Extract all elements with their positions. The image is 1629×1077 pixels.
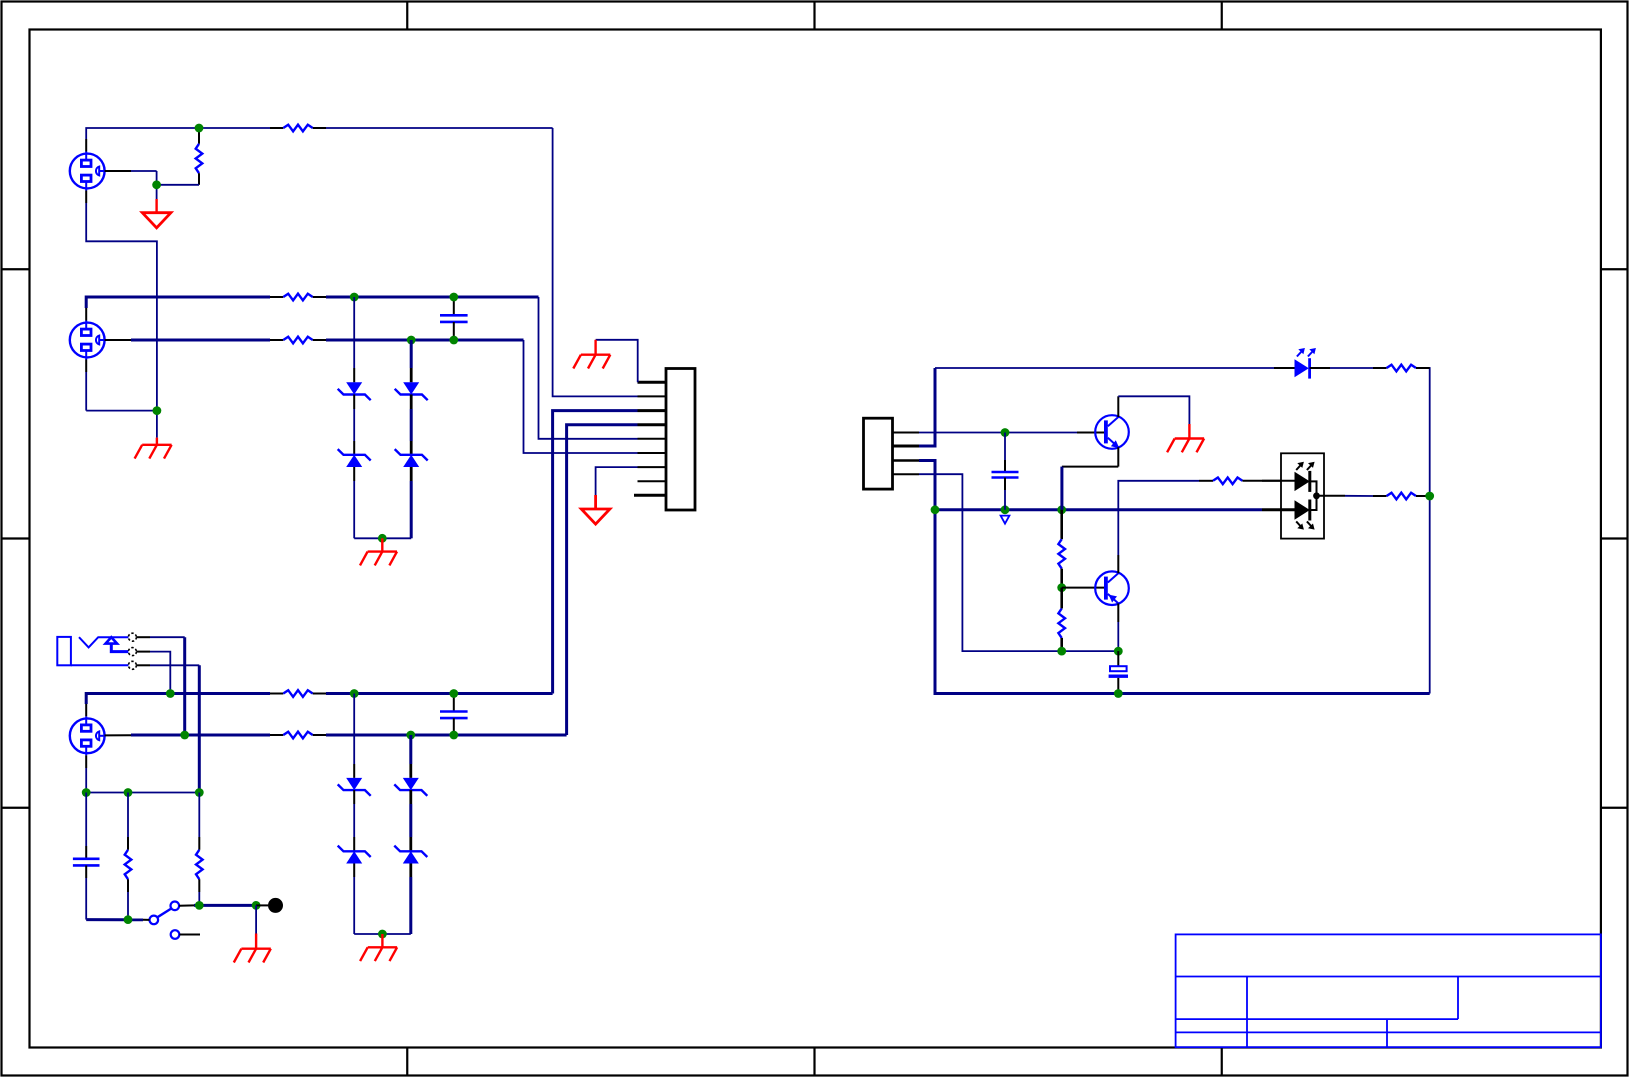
J5 pin leads [86, 704, 131, 768]
junction dot gnd tap [252, 901, 261, 910]
junction dots rail nodes [350, 293, 458, 345]
wire rail y297 [86, 297, 538, 308]
junction dot bottom [124, 915, 133, 924]
wire pin3 down [553, 411, 638, 694]
wire pin1 to chassis [596, 340, 638, 383]
transistor Q2 [1095, 571, 1129, 605]
junction dot switch node [195, 901, 204, 910]
wire switch to flag [194, 904, 256, 907]
jack contact circles [128, 633, 136, 669]
ground GND6 chassis [360, 934, 397, 961]
connector J4 header [666, 369, 695, 511]
switch SW1 [150, 902, 180, 939]
wire to header pin5 [539, 297, 638, 439]
resistor R9 [125, 793, 132, 920]
junction dot right vertical [1425, 492, 1434, 501]
pin 9 [634, 494, 666, 497]
J6 pin 4 [893, 473, 920, 475]
ground GND1 arrow [142, 199, 171, 228]
wire opto out [1345, 495, 1373, 497]
J2 pin leads [86, 308, 131, 372]
resistor R7 [270, 690, 326, 697]
ground GND8 chassis [1167, 424, 1204, 452]
junction dot J2 gnd [153, 406, 162, 415]
pin 5 [638, 438, 667, 440]
wire rail y693.5 [86, 694, 552, 705]
wire Q2 collector to opto [1118, 481, 1199, 573]
connector J3 jack [57, 637, 128, 665]
wire jack ring [150, 652, 170, 694]
optocoupler U1 box [1281, 453, 1324, 538]
zener D2 [338, 395, 371, 539]
transistor Q1 [1095, 415, 1129, 449]
wire J1 pin1 to node [86, 139, 131, 203]
wire J1 bottom to J2 bottom [86, 203, 157, 411]
opto LED B [1262, 500, 1315, 530]
resistor R8 [270, 732, 326, 739]
J6 pin 2 [893, 445, 920, 448]
switch leads [143, 905, 200, 934]
connector J5 (DIN) [70, 716, 105, 755]
resistor R10 [196, 793, 203, 906]
junction dot zener gnd block3 [378, 930, 387, 939]
junction dots right rail [931, 428, 1067, 514]
zener D4 [395, 395, 428, 539]
opto LED A [1262, 462, 1315, 492]
wire pin2 loop top [919, 368, 1430, 694]
junction dot divider [1057, 583, 1066, 592]
capacitor C6 [992, 433, 1019, 510]
wire pin3 loop bottom [919, 461, 1430, 694]
junction dots block3 rails [166, 689, 458, 739]
junction dot node B [152, 180, 161, 189]
capacitor C1 [440, 297, 468, 340]
pin 7 [638, 466, 667, 468]
resistor R14 [1199, 478, 1295, 485]
wire tap to gnd [255, 905, 257, 933]
resistor R12 [1058, 510, 1065, 588]
wire top rail y128 [86, 128, 637, 396]
ground mini triangle [1001, 516, 1010, 524]
zener D1 [338, 297, 371, 400]
capacitor C4 [440, 694, 468, 736]
wire pin4 to divider foot [919, 474, 1118, 651]
zener D9 [394, 790, 427, 934]
wire Q2 base [1062, 587, 1104, 589]
wire Q1 emitter to rail [1062, 447, 1118, 510]
wire zener bottoms [354, 537, 411, 539]
pin 8 [638, 480, 667, 482]
TITLE-BLOCK [1176, 934, 1601, 1047]
wire jack tip [150, 637, 185, 735]
pin 1 [638, 381, 667, 384]
ground GND4 chassis [573, 340, 610, 369]
opto common output [1310, 481, 1345, 510]
wire Q1 collector to chassis [1118, 396, 1189, 424]
junction dots wire3 [82, 788, 204, 797]
pin 2 [638, 395, 667, 397]
connector J6 [864, 418, 893, 489]
junction dot zener gnd [378, 534, 387, 543]
wire to header pin6 [524, 340, 638, 453]
resistor R4 [270, 337, 326, 344]
ground GND3 chassis [135, 438, 172, 459]
pin 6 [638, 452, 667, 454]
wire rail y509.8 [935, 508, 1262, 511]
junction dots emitter row [1057, 647, 1122, 656]
capacitor C5 [73, 793, 100, 920]
junction dot bottom wire [1114, 689, 1123, 698]
resistor R2 [196, 128, 203, 185]
wire J5 bottom to node row [86, 768, 199, 793]
LED D10 [1274, 348, 1330, 379]
capacitor C7 polarized [1109, 651, 1128, 693]
wire R2 to node A [131, 171, 199, 199]
wire Q2 emitter [1117, 603, 1119, 651]
resistor R3 [270, 294, 326, 301]
junction dot node A [195, 124, 204, 133]
wire rail y340 [131, 339, 524, 342]
jack pin leads [136, 637, 150, 665]
pin 3 [638, 409, 667, 412]
wire pin4 down [567, 425, 638, 735]
ground GND7 chassis [234, 934, 271, 963]
wire bottom left [86, 918, 143, 921]
J6 pin 3 [893, 459, 920, 462]
connector J1 (DIN) [70, 152, 105, 191]
wire J2 bottom node [86, 372, 157, 438]
wire pin7 to gnd [596, 467, 638, 495]
zener D7 [338, 790, 371, 934]
ground GND5 arrow [581, 495, 610, 524]
wire rail y735 [131, 734, 567, 737]
resistor R11 [1373, 365, 1430, 372]
wire zener bottoms block3 [354, 933, 411, 935]
resistor R13 [1058, 588, 1065, 652]
wire pin1 to Q1 base [919, 432, 1077, 434]
connector J2 (DIN) [70, 321, 105, 360]
wire jack sleeve [150, 665, 199, 792]
zener D3 [395, 340, 428, 400]
endpoint flag [256, 904, 268, 906]
zener D6 [338, 694, 371, 796]
resistor R15 [1373, 493, 1430, 500]
pin 4 [638, 423, 667, 426]
resistor R1 [270, 125, 326, 132]
ground GND2 chassis [360, 538, 397, 565]
zener D8 [394, 735, 427, 796]
J6 pin 1 [893, 432, 920, 434]
